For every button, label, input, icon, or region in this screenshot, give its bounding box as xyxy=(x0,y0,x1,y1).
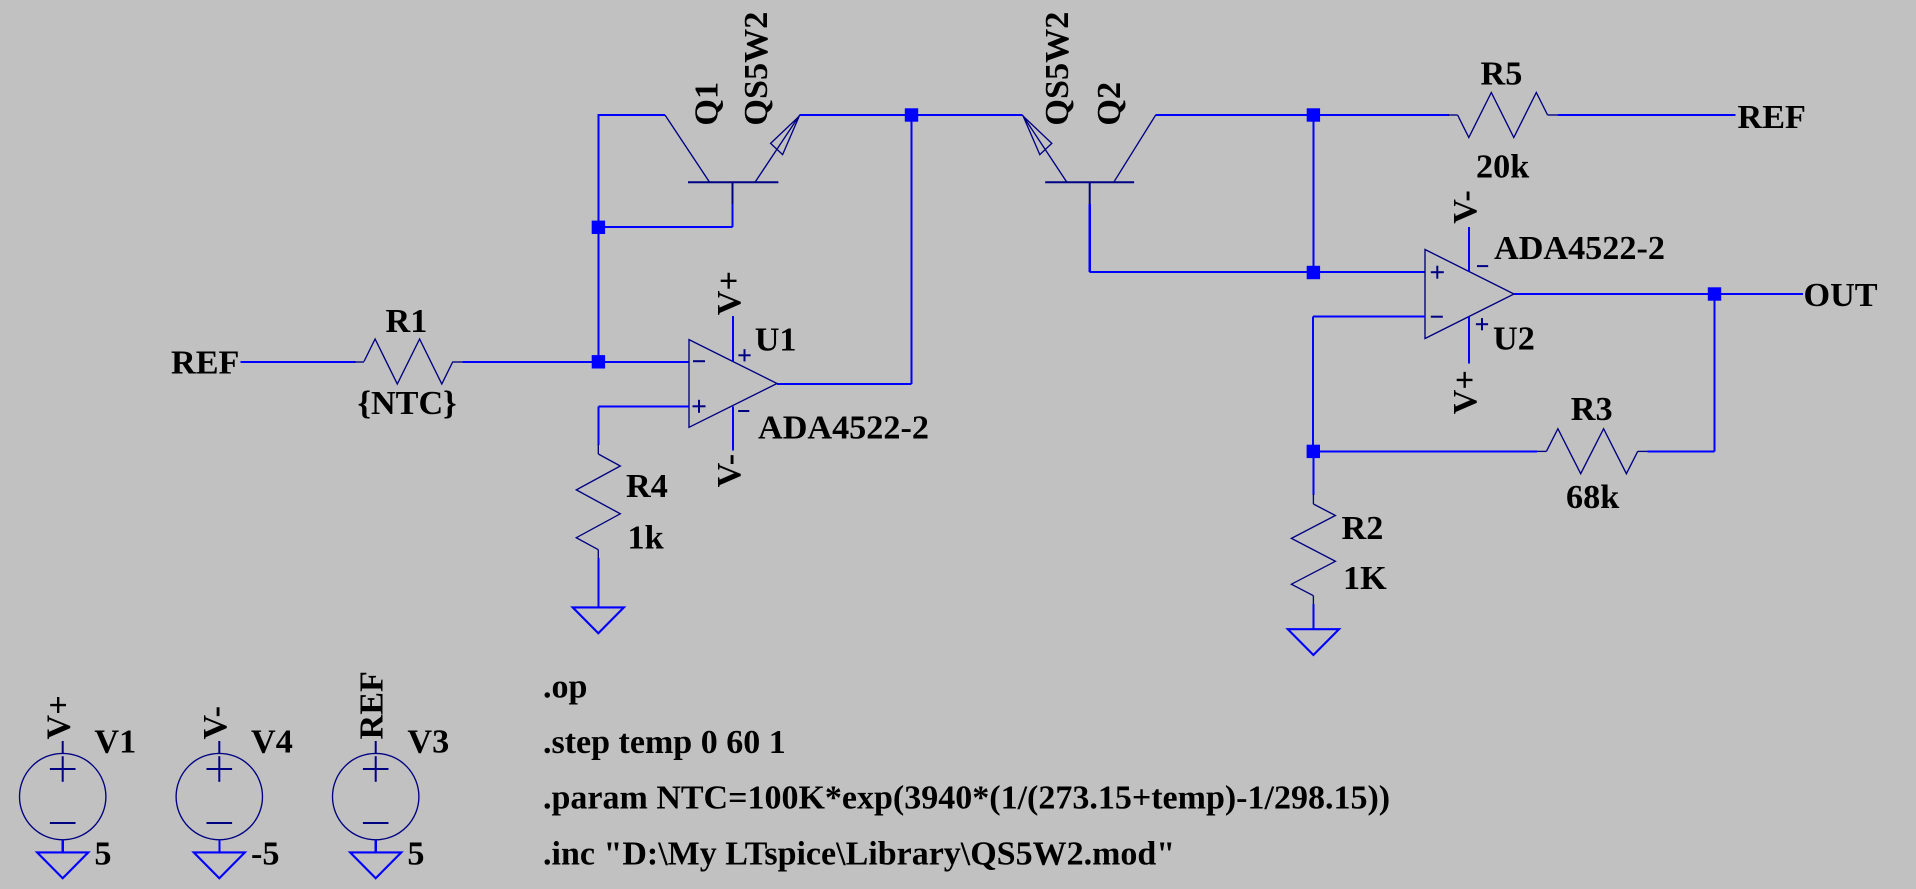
wire top rail Q1 emitter to Q2 emitter xyxy=(800,114,1023,116)
wire V1 to ground xyxy=(62,840,64,853)
pin V- of U1 xyxy=(732,407,734,451)
resistor R2 xyxy=(1291,494,1335,604)
svg-text:ADA4522-2: ADA4522-2 xyxy=(758,410,929,447)
transistor Q1 xyxy=(665,115,800,204)
op-amp U2 xyxy=(1425,250,1514,339)
svg-text:OUT: OUT xyxy=(1804,277,1878,314)
svg-text:{NTC}: {NTC} xyxy=(358,385,457,422)
svg-text:R5: R5 xyxy=(1481,56,1523,93)
resistor R1 xyxy=(354,339,462,384)
svg-text:-5: -5 xyxy=(251,836,279,873)
svg-text:.inc "D:\My LTspice\Library\QS: .inc "D:\My LTspice\Library\QS5W2.mod" xyxy=(543,836,1175,873)
svg-text:ADA4522-2: ADA4522-2 xyxy=(1494,230,1665,267)
node junction Q2/R5/U2+ xyxy=(1307,108,1320,121)
svg-text:R4: R4 xyxy=(626,468,668,505)
svg-text:REF: REF xyxy=(171,344,239,381)
wire R2/R3 node to R3 xyxy=(1313,450,1537,452)
svg-text:U1: U1 xyxy=(755,322,797,359)
wire to U2 + input xyxy=(1313,271,1425,273)
wire Q2 base to U2 + input xyxy=(1089,204,1091,272)
svg-text:V4: V4 xyxy=(251,723,293,760)
wire V4 to ground xyxy=(218,840,220,853)
wire Q1 base to node xyxy=(598,226,732,228)
svg-text:QS5W2: QS5W2 xyxy=(738,12,775,126)
svg-text:1K: 1K xyxy=(1343,560,1387,597)
ground below V3 xyxy=(350,852,401,878)
node junction R1/Q1/U1- xyxy=(592,355,605,368)
svg-text:U2: U2 xyxy=(1493,321,1535,358)
voltage source V3 xyxy=(333,741,419,840)
wire node to R2 xyxy=(1312,451,1314,495)
wire U1 output feedback xyxy=(910,115,912,384)
wire V3 to ground xyxy=(375,840,377,853)
wire Q2 collector to R5 node xyxy=(1156,114,1449,116)
svg-text:REF: REF xyxy=(1738,99,1806,136)
wire R4 to ground xyxy=(597,558,599,607)
svg-text:R3: R3 xyxy=(1571,391,1613,428)
svg-text:.step temp 0 60 1: .step temp 0 60 1 xyxy=(543,724,786,761)
ground below R2 xyxy=(1288,629,1339,655)
wire U1 + input xyxy=(598,406,689,408)
resistor R4 xyxy=(576,444,620,558)
svg-text:5: 5 xyxy=(94,836,111,873)
resistor R3 xyxy=(1537,429,1648,474)
svg-text:Q2: Q2 xyxy=(1091,82,1128,126)
svg-text:R2: R2 xyxy=(1342,510,1384,547)
node junction Q1 base xyxy=(592,221,605,234)
node junction R2/R3/U2- xyxy=(1307,445,1320,458)
voltage source V1 xyxy=(20,741,106,840)
resistor R5 xyxy=(1448,93,1558,138)
svg-text:V+: V+ xyxy=(41,695,78,739)
wire U2 - input xyxy=(1313,315,1425,317)
svg-text:Q1: Q1 xyxy=(689,82,726,126)
svg-text:V-: V- xyxy=(1447,190,1484,224)
wire node up to Q1 collector xyxy=(597,115,599,362)
svg-text:20k: 20k xyxy=(1476,148,1529,185)
svg-text:V-: V- xyxy=(711,454,748,488)
svg-text:V1: V1 xyxy=(94,723,136,760)
node junction OUT/R3 xyxy=(1708,287,1721,300)
svg-text:V+: V+ xyxy=(711,271,748,315)
wire R1 to U1 inverting input xyxy=(463,361,689,363)
wire R2 to ground xyxy=(1312,604,1314,629)
svg-text:QS5W2: QS5W2 xyxy=(1039,12,1076,126)
pin V- of U2 xyxy=(1468,227,1470,271)
svg-text:.param NTC=100K*exp(3940*(1/(2: .param NTC=100K*exp(3940*(1/(273.15+temp… xyxy=(543,780,1390,817)
node junction top rail / U1 output xyxy=(905,108,918,121)
svg-text:1k: 1k xyxy=(628,520,664,557)
wire REF to R1 xyxy=(241,361,356,363)
svg-text:5: 5 xyxy=(407,836,424,873)
voltage source V4 xyxy=(176,741,262,840)
ground below R4 xyxy=(573,607,624,633)
node junction U2 + input xyxy=(1307,266,1320,279)
svg-text:R1: R1 xyxy=(386,303,428,340)
svg-text:.op: .op xyxy=(543,668,587,705)
svg-text:V3: V3 xyxy=(407,723,449,760)
op-amp U1 xyxy=(689,340,777,428)
wire R5 to REF flag xyxy=(1557,114,1735,116)
wire node down to U2 + input xyxy=(1312,115,1314,272)
transistor Q2 xyxy=(1022,115,1155,204)
wire OUT node down to R3 xyxy=(1713,294,1715,451)
svg-text:V-: V- xyxy=(197,706,234,740)
pin V+ of U2 xyxy=(1468,316,1470,363)
ground below V4 xyxy=(194,852,245,878)
svg-text:68k: 68k xyxy=(1566,479,1619,516)
pin V+ of U1 xyxy=(732,316,734,361)
wire U2 output to OUT xyxy=(1514,293,1803,295)
ground below V1 xyxy=(37,852,88,878)
svg-text:V+: V+ xyxy=(1447,370,1484,414)
svg-text:REF: REF xyxy=(354,671,391,739)
